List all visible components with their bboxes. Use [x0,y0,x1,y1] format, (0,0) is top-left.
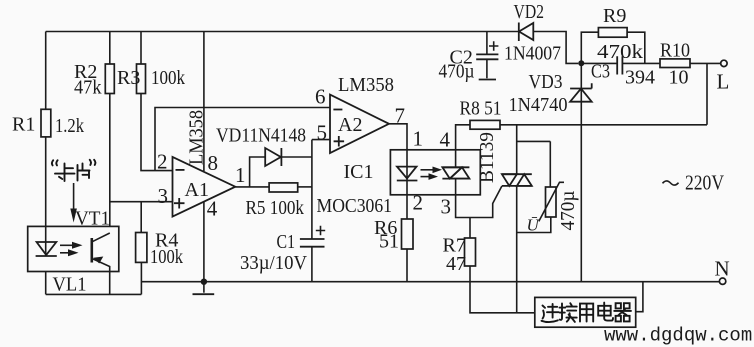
svg-text:VD11N4148: VD11N4148 [216,125,306,147]
svg-text:A2: A2 [338,114,362,136]
wire IC1 pin3 to gate [456,186,502,218]
svg-text:2: 2 [413,191,424,215]
svg-text:47: 47 [446,253,466,275]
wire VD1 branch [250,157,312,187]
resistor R6 [374,217,413,253]
svg-text:394: 394 [625,67,655,89]
wire left rail down to R1 [45,32,47,110]
svg-text:VT1: VT1 [75,208,110,230]
svg-text:LM358: LM358 [186,110,208,165]
wire top rail [46,31,519,33]
optocoupler VL1 box [28,226,119,271]
svg-text:470µ: 470µ [557,191,579,231]
svg-text:C3: C3 [591,61,610,83]
capacitor C3 [591,56,655,88]
svg-text:VD2: VD2 [514,1,545,23]
wire B1139 bottom [516,186,518,313]
svg-text:47k: 47k [74,77,102,99]
svg-text:3: 3 [441,195,452,219]
text quoted kapian (card) hand-drawn [52,160,95,181]
wire pin6 A2 feedback jog [155,108,330,171]
wire node pin3 A1 [110,201,173,203]
svg-text:VD3: VD3 [529,71,563,93]
wire IC1 pin2 to R6 [406,195,408,219]
wire A1 output [235,186,269,188]
svg-text:IC1: IC1 [344,161,374,183]
IC1 pin labels [413,127,452,219]
wire C3 line [581,62,660,64]
diode VD2 [504,1,578,65]
svg-text:Ū: Ū [527,216,541,235]
svg-text:L: L [717,70,730,94]
varistor RV [517,182,579,234]
svg-text:N: N [715,257,730,281]
svg-text:10: 10 [669,67,689,89]
resistor R7 [443,235,476,276]
wire R2 bottom to VT1 collector node [109,94,111,234]
svg-text:R1: R1 [12,114,35,136]
wire bottom rail [141,281,719,283]
resistor R10 [660,40,690,89]
svg-text:www.dgdqw.com: www.dgdqw.com [604,325,752,347]
svg-text:1N4007: 1N4007 [504,43,561,65]
diode VD1 [216,125,306,167]
wire R7 branch [470,218,535,313]
wire pin8 A1 from rail [203,32,205,172]
resistor R8 [460,98,502,130]
op-amp A2 [315,74,405,153]
IC1 triac [442,150,469,195]
svg-text:2: 2 [157,150,168,174]
VL1 light arrows [60,242,83,256]
wire pin4 A1 to ground [203,202,205,282]
svg-text:1.2k: 1.2k [55,115,84,137]
wire IC1 pin4 up and R8 line [456,63,707,149]
svg-text:1: 1 [413,127,424,151]
capacitor C2 [439,32,499,83]
svg-text:470µ: 470µ [439,61,475,83]
wire R1 to VL1 LED and down [45,137,47,295]
wire pin5 A2 vertical node [311,140,313,282]
svg-text:MOC3061: MOC3061 [317,195,393,217]
svg-text:C1: C1 [277,231,296,253]
svg-text:LM358: LM358 [338,74,394,96]
svg-text:3: 3 [158,184,169,208]
wire A2 output to IC1 pin1 [389,124,407,150]
appliance box (lianjie yong dianqi) [535,282,643,327]
svg-text:51: 51 [379,231,399,253]
terminal N [715,257,730,285]
resistor R5 [246,183,312,219]
svg-text:A1: A1 [185,179,209,201]
resistor R9 [597,5,643,63]
VL1 LED [36,226,57,256]
svg-text:R5 100k: R5 100k [246,197,305,219]
svg-text:VL1: VL1 [53,274,87,296]
triac B1139 [476,132,532,186]
wire R6 bottom [406,249,408,282]
text lianjieyongdianqi hand-drawn [542,303,632,323]
wire R4 bottom / jog up to rail [140,262,142,294]
wire VL1 bottom [46,293,142,295]
resistor R2 [74,32,114,99]
optocoupler IC1 box [390,150,480,195]
wire B1139 top branch [517,125,551,187]
svg-text:5: 5 [317,121,328,145]
svg-text:100k: 100k [150,246,183,268]
svg-text:6: 6 [315,85,326,109]
wire R10 to L terminal [690,62,721,64]
svg-text:8: 8 [208,151,219,175]
arrow card pointer [70,183,77,223]
svg-text:R10: R10 [660,40,690,62]
wire R3 bottom to pin2 A1 [141,94,173,171]
svg-text:100k: 100k [151,67,185,89]
svg-text:R3: R3 [117,67,140,89]
svg-text:4: 4 [207,197,218,221]
svg-text:1N4740: 1N4740 [509,94,568,116]
op-amp A1 [157,110,246,221]
svg-text:R8 51: R8 51 [460,98,502,120]
svg-text:R9: R9 [603,5,626,27]
diode VD3 zener [509,63,592,281]
svg-text:B1139: B1139 [476,132,498,183]
wire junction to R9 branch [581,32,645,63]
svg-text:220V: 220V [685,171,724,195]
svg-text:4: 4 [440,128,451,152]
node junction dot [578,60,584,66]
IC1 LED [397,150,418,195]
svg-text:33µ/10V: 33µ/10V [240,252,308,274]
phototransistor VT1 [75,208,110,295]
resistor R4 [136,202,183,268]
resistor R1 [12,109,84,137]
terminal L [717,60,730,93]
resistor R3 [117,32,185,94]
ground [193,279,215,295]
capacitor C1 [240,226,325,274]
wire pin5 A2 [312,139,330,141]
svg-text:1: 1 [235,163,246,187]
text ~220V [663,171,725,195]
IC1 light arrows [421,167,443,180]
